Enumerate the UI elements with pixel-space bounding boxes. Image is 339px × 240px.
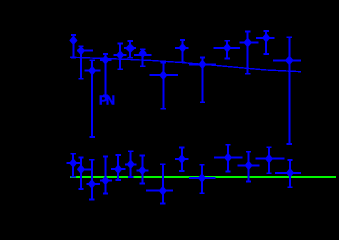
- data point B9 error bars: [175, 148, 188, 172]
- data point T9 marker: [179, 43, 187, 53]
- data point B1 error bars: [67, 154, 81, 177]
- data point T4 error bars: [100, 54, 111, 96]
- data point T6 marker: [125, 43, 135, 53]
- data point B4 error bars: [100, 157, 112, 194]
- data point B7 marker: [138, 166, 146, 176]
- data point B4 marker: [101, 176, 109, 186]
- data point B10 marker: [198, 173, 206, 183]
- data point T11 error bars: [214, 41, 241, 59]
- data point T12 error bars: [240, 32, 259, 74]
- fit line (top panel): [70, 57, 301, 71]
- green zero line (bottom panel): [70, 176, 336, 178]
- data point T10 error bars: [189, 58, 216, 103]
- data point B1 marker: [69, 158, 77, 168]
- data point T10 marker: [198, 59, 206, 69]
- data point T9 error bars: [175, 40, 189, 62]
- data point B6 marker: [127, 159, 135, 169]
- data point B12 marker: [245, 161, 253, 171]
- data point B3 marker: [88, 179, 96, 189]
- data point B5 marker: [114, 164, 122, 174]
- data point B3 error bars: [87, 160, 101, 200]
- data point B12 error bars: [238, 152, 260, 182]
- data point T7 error bars: [134, 49, 151, 66]
- data point T14 marker: [285, 55, 294, 65]
- data point T12 marker: [243, 38, 252, 48]
- data point B13 error bars: [256, 147, 285, 173]
- data point B14 error bars: [275, 160, 301, 187]
- data point B2 error bars: [78, 158, 93, 190]
- data point T8 error bars: [150, 63, 178, 109]
- data point T7 marker: [139, 48, 147, 58]
- data point T2 marker: [77, 46, 85, 56]
- data point B2 marker: [77, 164, 85, 174]
- data point T8 marker: [159, 70, 167, 80]
- svg-text:PN: PN: [99, 94, 115, 108]
- data point B14 marker: [286, 168, 294, 178]
- data point B6 error bars: [125, 151, 137, 177]
- data point T11 marker: [223, 43, 231, 53]
- data point T5 error bars: [114, 44, 127, 70]
- data point B10 error bars: [189, 165, 215, 194]
- data point T14 error bars: [273, 37, 301, 144]
- data point B8 error bars: [146, 164, 173, 203]
- data point B5 error bars: [111, 155, 126, 180]
- data point T13 error bars: [256, 31, 274, 54]
- data point B9 marker: [178, 154, 186, 164]
- data point T1 error bars: [70, 35, 77, 58]
- data point T3 error bars: [85, 60, 101, 137]
- data point B13 marker: [265, 154, 273, 164]
- data point T4 marker: [101, 55, 109, 65]
- data point T2 error bars: [77, 46, 93, 79]
- data point B7 error bars: [137, 156, 149, 184]
- data point T3 marker: [88, 66, 96, 76]
- data point T1 marker: [69, 36, 77, 46]
- data point B8 marker: [159, 186, 167, 196]
- data point B11 marker: [224, 153, 232, 163]
- data point T6 error bars: [124, 41, 136, 58]
- data point B11 error bars: [214, 145, 243, 172]
- data point T13 marker: [262, 33, 270, 43]
- data point T5 marker: [116, 50, 124, 60]
